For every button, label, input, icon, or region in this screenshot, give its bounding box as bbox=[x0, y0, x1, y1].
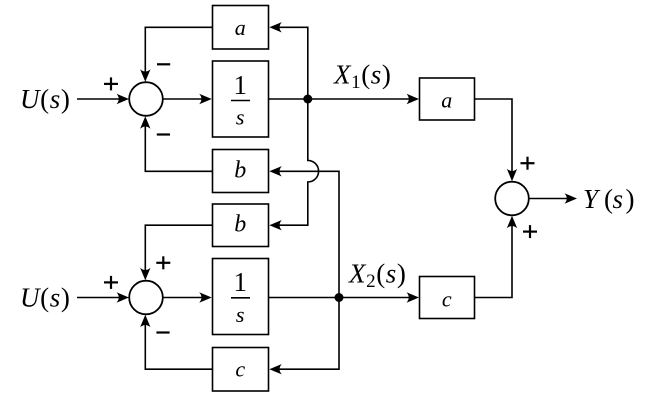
svg-text:c: c bbox=[442, 286, 452, 311]
svg-text:b: b bbox=[234, 157, 247, 183]
svg-text:U(s): U(s) bbox=[20, 84, 70, 114]
plus sign Y bottom input bbox=[523, 231, 537, 233]
plus sign S1 left input bbox=[104, 83, 118, 85]
minus sign S2 bottom input bbox=[156, 331, 169, 333]
plus sign S2 left input bbox=[104, 281, 118, 283]
block a feedback top bbox=[213, 6, 269, 50]
block b feedback upper bbox=[213, 150, 269, 193]
wire node X1 up into a feedback bbox=[275, 27, 308, 99]
summing junction Y bbox=[495, 182, 529, 216]
svg-text:a: a bbox=[235, 15, 247, 40]
wire b lower output to S2 top bbox=[145, 225, 212, 275]
svg-text:1: 1 bbox=[233, 70, 247, 100]
wire a forward to Y summing junction bbox=[475, 99, 513, 176]
minus sign S1 top input bbox=[157, 63, 170, 65]
wire X2 down into c feedback bbox=[275, 298, 339, 370]
arrowhead b upper into S1 bottom bbox=[140, 116, 150, 129]
svg-text:U(s): U(s) bbox=[20, 283, 70, 313]
svg-text:): ) bbox=[626, 184, 636, 214]
wire Y output bbox=[529, 198, 572, 200]
wire c feedback output to S2 bottom bbox=[145, 321, 212, 370]
arrowhead Y output bbox=[565, 193, 578, 203]
wire c forward to Y summing junction bbox=[475, 221, 513, 298]
svg-text:1: 1 bbox=[233, 267, 247, 297]
svg-text:s: s bbox=[236, 105, 245, 130]
block integrator 1/s bottom bbox=[213, 259, 269, 335]
wire X2 up into b upper (crossing under hop) bbox=[275, 171, 339, 297]
block integrator 1/s top bbox=[213, 61, 269, 137]
arrowhead X2 into c forward bbox=[407, 292, 420, 302]
wire S1 to integrator 1 bbox=[163, 98, 207, 100]
plus sign Y top input bbox=[521, 162, 535, 164]
svg-text:X1(s): X1(s) bbox=[333, 60, 392, 94]
wire S2 to integrator 2 bbox=[163, 297, 207, 299]
arrowhead X1 into a forward bbox=[407, 94, 420, 104]
arrowhead into b upper block bbox=[269, 166, 282, 176]
arrowhead U into S1 bbox=[117, 94, 130, 104]
summing junction S1 bbox=[129, 82, 163, 116]
svg-text:s: s bbox=[613, 184, 624, 214]
minus sign S1 bottom input bbox=[157, 133, 170, 135]
fraction bar bottom 1/s bbox=[231, 297, 250, 299]
wire integrator2 to block c forward, node X2 bbox=[269, 297, 415, 299]
wire integrator1 to block a forward, node X1 bbox=[269, 98, 415, 100]
fraction bar top 1/s bbox=[231, 100, 250, 102]
svg-text:b: b bbox=[234, 212, 247, 238]
svg-text:s: s bbox=[236, 302, 245, 327]
arrowhead into a feedback block bbox=[269, 22, 282, 32]
arrowhead b lower into S2 top bbox=[140, 268, 150, 281]
arrowhead into b lower block bbox=[269, 220, 282, 230]
svg-text:X2(s): X2(s) bbox=[348, 258, 407, 292]
block a forward bbox=[420, 78, 475, 120]
block c feedback bottom bbox=[213, 348, 269, 392]
svg-text:a: a bbox=[441, 88, 453, 113]
arrowhead into c feedback block bbox=[269, 364, 282, 374]
summing junction S2 bbox=[129, 281, 163, 315]
wire X1 down with hop into b lower bbox=[275, 99, 319, 225]
arrowhead S2 into integrator2 bbox=[199, 292, 212, 302]
svg-text:Y: Y bbox=[583, 184, 601, 214]
arrowhead c feedback into S2 bottom bbox=[140, 315, 150, 328]
block c forward bbox=[420, 277, 475, 319]
node X2 junction dot bbox=[335, 293, 344, 302]
arrowhead a feedback into S1 top bbox=[140, 69, 150, 82]
node X1 junction dot bbox=[303, 95, 312, 104]
wire b upper output to S1 bottom bbox=[145, 122, 212, 171]
arrowhead U into S2 bbox=[117, 292, 130, 302]
plus sign S2 top input bbox=[156, 262, 170, 264]
arrowhead S1 into integrator1 bbox=[199, 94, 212, 104]
wire U(s) top input bbox=[77, 98, 124, 100]
wire a feedback output to S1 top bbox=[145, 27, 212, 77]
arrowhead c forward into Y bottom bbox=[507, 216, 517, 229]
block b feedback lower bbox=[213, 204, 269, 247]
arrowhead a forward into Y top bbox=[507, 169, 517, 182]
svg-text:c: c bbox=[235, 356, 245, 381]
wire U(s) bottom input bbox=[77, 297, 124, 299]
